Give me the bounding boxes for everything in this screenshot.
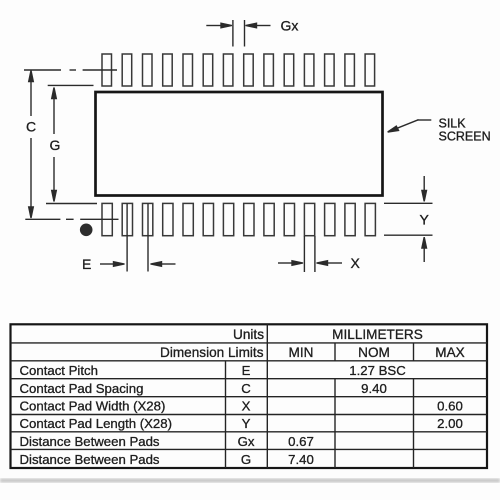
silk screen leader arrow (388, 120, 432, 132)
svg-text:0.67: 0.67 (288, 434, 314, 449)
table row: Distance Between Pads G 7.40 (20, 452, 314, 467)
svg-text:Gx: Gx (281, 18, 299, 34)
silkscreen body outline (96, 92, 383, 196)
svg-text:Gx: Gx (238, 434, 255, 449)
dimension C: bottom extension line (dash-dot) (25, 218, 118, 220)
svg-text:Dimension Limits: Dimension Limits (160, 345, 264, 360)
table row: Contact Pad Length (X28) Y 2.00 (20, 416, 463, 431)
svg-text:9.40: 9.40 (361, 381, 387, 396)
dimension Gx: arrows (206, 23, 270, 28)
svg-text:G: G (50, 137, 61, 153)
svg-text:E: E (82, 256, 91, 272)
dimension Y: extension lines (384, 203, 433, 235)
svg-text:SCREEN: SCREEN (439, 130, 491, 144)
svg-text:1.27 BSC: 1.27 BSC (349, 363, 406, 378)
dimension G: top extension line (48, 84, 94, 86)
dimension Y: arrows (422, 176, 427, 262)
table row: Contact Pad Spacing C 9.40 (20, 381, 387, 396)
dimension Gx: extension lines (233, 20, 245, 47)
dimension X: extension lines (304, 236, 315, 272)
svg-text:Distance Between Pads: Distance Between Pads (20, 452, 160, 467)
dimension G: vertical line with arrows (52, 88, 57, 202)
svg-text:2.00: 2.00 (437, 416, 463, 431)
dimension C: vertical line with arrows (29, 71, 34, 219)
svg-text:Contact Pad Width (X28): Contact Pad Width (X28) (20, 399, 166, 414)
svg-text:Y: Y (420, 212, 430, 228)
bottom contact pads (14) (102, 203, 375, 235)
table row: Units / MILLIMETERS (233, 327, 423, 342)
svg-text:Y: Y (242, 416, 251, 431)
dimension E: arrows (100, 262, 176, 267)
svg-text:Contact Pad Spacing: Contact Pad Spacing (20, 381, 144, 396)
svg-text:C: C (26, 119, 36, 135)
svg-text:Distance Between Pads: Distance Between Pads (20, 434, 160, 449)
svg-text:E: E (242, 363, 251, 378)
svg-text:MILLIMETERS: MILLIMETERS (332, 327, 423, 342)
table row: Dimension Limits / MIN NOM MAX (160, 345, 465, 360)
table row: Contact Pitch E 1.27 BSC (20, 363, 407, 378)
dimension X: arrows (278, 261, 342, 266)
svg-text:0.60: 0.60 (437, 399, 463, 414)
svg-text:MAX: MAX (435, 345, 464, 360)
dimension E: extension lines (127, 203, 148, 271)
svg-text:C: C (241, 381, 251, 396)
svg-text:X: X (242, 399, 251, 414)
dimension C: top extension line (dash-dot) (24, 69, 117, 71)
svg-text:NOM: NOM (358, 345, 390, 360)
table outer border (11, 324, 488, 468)
table horizontal grid lines (11, 343, 488, 450)
svg-text:Units: Units (233, 327, 264, 342)
svg-text:X: X (351, 255, 361, 271)
svg-text:Contact Pad Length (X28): Contact Pad Length (X28) (20, 416, 173, 431)
top contact pads (14) (102, 54, 375, 86)
dimension G: bottom extension line (46, 203, 97, 205)
table vertical grid lines (226, 324, 414, 468)
svg-text:MIN: MIN (289, 345, 314, 360)
svg-text:G: G (241, 452, 251, 467)
pin 1 marker dot (80, 224, 93, 237)
scan shadow under table (0, 479, 500, 483)
svg-text:SILK: SILK (439, 117, 467, 131)
table row: Contact Pad Width (X28) X 0.60 (20, 399, 463, 414)
svg-text:Contact Pitch: Contact Pitch (20, 363, 98, 378)
table row: Distance Between Pads Gx 0.67 (20, 434, 314, 449)
svg-text:7.40: 7.40 (288, 452, 314, 467)
